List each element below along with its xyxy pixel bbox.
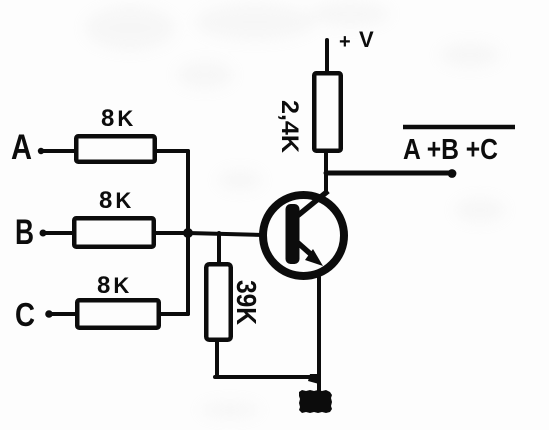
svg-text:C: C — [15, 296, 35, 333]
svg-text:39K: 39K — [231, 280, 262, 325]
svg-text:A +B +C: A +B +C — [403, 134, 498, 166]
svg-text:2,4K: 2,4K — [276, 100, 303, 154]
svg-text:8K: 8K — [99, 187, 131, 214]
svg-text:A: A — [11, 128, 32, 167]
svg-text:B: B — [15, 213, 34, 252]
svg-text:+: + — [339, 31, 351, 53]
svg-text:8K: 8K — [97, 272, 129, 299]
svg-text:8K: 8K — [101, 105, 133, 132]
svg-text:V: V — [359, 27, 374, 52]
